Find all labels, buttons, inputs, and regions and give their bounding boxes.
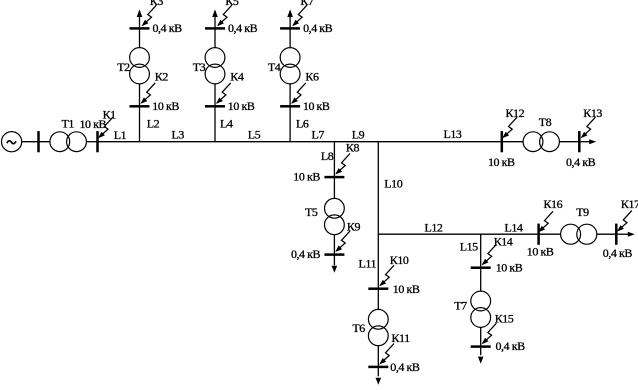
- busbar tick 0,4 кВ (T5 secondary): [324, 253, 344, 256]
- wire riser upper (Т4): [289, 11, 291, 48]
- svg-text:10 кВ: 10 кВ: [293, 170, 320, 184]
- busbar tick (generator bus): [37, 131, 40, 152]
- svg-text:Т3: Т3: [193, 60, 206, 74]
- load arrow (Т2 feeder): [137, 9, 143, 17]
- fault marker К4: [216, 83, 231, 104]
- load arrow (T6 feeder): [376, 378, 382, 385]
- svg-text:К13: К13: [583, 106, 602, 120]
- svg-text:10 кВ: 10 кВ: [496, 260, 523, 274]
- wire L14: [539, 233, 561, 235]
- svg-text:L5: L5: [248, 128, 261, 142]
- svg-text:10 кВ: 10 кВ: [527, 244, 554, 258]
- fault marker К6: [291, 83, 306, 104]
- busbar tick 0,4 кВ (T6 secondary): [368, 366, 388, 369]
- busbar tick 10 кВ (Т3 primary): [205, 105, 225, 108]
- svg-text:0,4 кВ: 0,4 кВ: [291, 247, 321, 261]
- svg-text:L4: L4: [220, 117, 233, 131]
- svg-text:0,4 кВ: 0,4 кВ: [153, 21, 183, 35]
- busbar tick 0,4 кВ (T7 secondary): [471, 345, 491, 348]
- busbar tick 10 кВ (T8 primary / K12 node): [501, 131, 504, 152]
- wire L7: [290, 141, 333, 143]
- transformer T5: [325, 198, 345, 234]
- wire generator to T1: [22, 141, 50, 143]
- svg-text:Т1: Т1: [62, 117, 75, 131]
- wire riser upper (Т2): [139, 11, 141, 48]
- fault marker К7: [292, 5, 307, 26]
- svg-text:L15: L15: [460, 239, 478, 253]
- wire T6 secondary stub: [377, 346, 379, 377]
- busbar tick 10 кВ (Т4 primary): [280, 105, 300, 108]
- fault marker K9: [335, 231, 350, 252]
- svg-text:0,4 кВ: 0,4 кВ: [390, 360, 420, 374]
- wire L12: [378, 233, 538, 235]
- svg-text:10 кВ: 10 кВ: [488, 155, 515, 169]
- svg-text:L14: L14: [505, 220, 523, 234]
- load arrow (T8 feeder): [579, 141, 589, 143]
- busbar tick 0,4 кВ (K17 node): [615, 224, 618, 245]
- wire T9 to 0,4 кВ bus: [597, 233, 617, 235]
- transformer T7: [471, 291, 491, 327]
- wire riser lower (Т3): [214, 84, 216, 142]
- busbar tick 0,4 кВ (Т4 secondary): [280, 27, 300, 30]
- svg-text:Т5: Т5: [305, 205, 318, 219]
- svg-text:L11: L11: [359, 256, 377, 270]
- svg-text:L10: L10: [384, 177, 402, 191]
- load arrow (T5 feeder): [332, 266, 338, 273]
- svg-text:К1: К1: [103, 108, 117, 122]
- svg-text:К8: К8: [346, 140, 360, 154]
- fault marker K13: [581, 117, 596, 138]
- svg-text:L12: L12: [425, 220, 443, 234]
- wire L11: [377, 234, 379, 309]
- svg-text:К9: К9: [347, 220, 361, 234]
- svg-text:Т9: Т9: [576, 205, 589, 219]
- wire L8 (T5 drop): [333, 142, 335, 199]
- fault marker К2: [140, 83, 155, 104]
- svg-text:L2: L2: [147, 117, 160, 131]
- busbar tick 0,4 кВ (Т3 secondary): [205, 27, 225, 30]
- fault marker K12: [502, 117, 517, 138]
- load arrow (Т3 feeder): [212, 9, 218, 17]
- svg-text:К15: К15: [495, 311, 514, 325]
- svg-text:К17: К17: [621, 197, 638, 211]
- svg-text:L1: L1: [114, 128, 127, 142]
- wire T8 to 0,4 кВ bus: [559, 141, 579, 143]
- fault marker K16: [538, 211, 553, 232]
- fault marker K11: [379, 344, 394, 365]
- svg-text:L7: L7: [312, 128, 325, 142]
- fault marker K10: [379, 265, 394, 286]
- svg-text:К12: К12: [506, 106, 525, 120]
- svg-text:К16: К16: [544, 197, 563, 211]
- svg-text:Т8: Т8: [539, 115, 552, 129]
- fault marker K1: [98, 117, 113, 138]
- busbar tick 10 кВ (T6 primary): [368, 287, 388, 290]
- svg-text:0,4 кВ: 0,4 кВ: [228, 21, 258, 35]
- svg-text:10 кВ: 10 кВ: [228, 99, 255, 113]
- wire L9: [333, 141, 379, 143]
- wire L5: [215, 141, 290, 143]
- svg-text:L6: L6: [296, 117, 309, 131]
- transformer T1: [50, 132, 86, 152]
- svg-text:10 кВ: 10 кВ: [393, 282, 420, 296]
- svg-text:Т7: Т7: [454, 298, 467, 312]
- svg-text:Т4: Т4: [268, 60, 281, 74]
- wire riser lower (Т4): [289, 84, 291, 142]
- svg-text:К5: К5: [225, 0, 239, 8]
- svg-text:К3: К3: [150, 0, 164, 8]
- svg-text:К2: К2: [155, 70, 169, 84]
- svg-text:0,4 кВ: 0,4 кВ: [496, 339, 526, 353]
- wire riser upper (Т3): [214, 11, 216, 48]
- busbar tick 10 кВ (T5 primary): [324, 176, 344, 179]
- wire T1 to 10kV bus: [86, 141, 97, 143]
- svg-text:0,4 кВ: 0,4 кВ: [303, 21, 333, 35]
- wire T7 secondary stub: [480, 327, 482, 355]
- fault marker K17: [617, 211, 632, 232]
- svg-text:10 кВ: 10 кВ: [152, 99, 179, 113]
- svg-text:0,4 кВ: 0,4 кВ: [566, 155, 596, 169]
- wire L10: [377, 142, 379, 235]
- transformer Т3: [205, 48, 225, 84]
- wire L13: [378, 141, 523, 143]
- wire riser lower (Т2): [139, 84, 141, 142]
- svg-text:L3: L3: [172, 128, 185, 142]
- transformer T9: [561, 224, 597, 244]
- transformer Т2: [130, 48, 150, 84]
- wire L3: [140, 141, 216, 143]
- svg-text:0,4 кВ: 0,4 кВ: [603, 246, 633, 260]
- svg-text:К7: К7: [300, 0, 314, 8]
- fault marker К3: [142, 5, 157, 26]
- fault marker К5: [217, 5, 232, 26]
- transformer Т4: [280, 48, 300, 84]
- fault marker K8: [335, 154, 350, 175]
- transformer T8: [523, 132, 559, 152]
- fault marker K15: [482, 323, 497, 344]
- svg-text:10 кВ: 10 кВ: [303, 99, 330, 113]
- load arrow (T7 feeder): [478, 357, 484, 364]
- svg-text:К14: К14: [494, 234, 513, 248]
- svg-text:Т2: Т2: [117, 60, 130, 74]
- svg-text:К4: К4: [230, 70, 244, 84]
- wire L15: [480, 234, 482, 291]
- transformer T6: [368, 309, 388, 345]
- busbar tick 10 кВ (Т2 primary): [130, 105, 150, 108]
- busbar tick 10 кВ (T7 primary): [471, 266, 491, 269]
- svg-text:К10: К10: [390, 253, 409, 267]
- wire T5 secondary stub: [333, 235, 335, 266]
- fault marker K14: [482, 244, 497, 265]
- svg-text:L13: L13: [444, 127, 462, 141]
- svg-text:L8: L8: [321, 149, 334, 163]
- wire L1: [98, 141, 140, 143]
- busbar tick 10kV (K1 node): [96, 131, 99, 152]
- svg-text:К11: К11: [392, 331, 411, 345]
- load arrow (T9 feeder): [616, 233, 628, 235]
- load arrow (Т4 feeder): [287, 9, 293, 17]
- svg-text:Т6: Т6: [352, 321, 365, 335]
- generator G: [2, 132, 22, 152]
- busbar tick 10 кВ (T9 primary / K16 node): [537, 224, 540, 245]
- busbar tick 0,4 кВ (Т2 secondary): [130, 27, 150, 30]
- svg-text:К6: К6: [305, 70, 319, 84]
- busbar tick 0,4 кВ (K13 node): [578, 131, 581, 152]
